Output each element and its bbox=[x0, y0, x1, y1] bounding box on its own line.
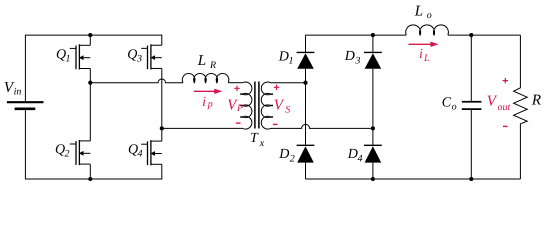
svg-text:o: o bbox=[427, 10, 432, 21]
svg-text:S: S bbox=[285, 104, 290, 115]
svg-text:i: i bbox=[202, 95, 206, 110]
svg-text:L: L bbox=[414, 3, 423, 19]
svg-text:R: R bbox=[209, 60, 216, 71]
svg-text:2: 2 bbox=[290, 154, 295, 165]
svg-text:p: p bbox=[207, 99, 213, 110]
svg-text:D: D bbox=[347, 147, 358, 162]
svg-text:R: R bbox=[531, 93, 541, 109]
svg-text:L: L bbox=[197, 53, 206, 69]
svg-text:3: 3 bbox=[354, 55, 360, 66]
svg-text:2: 2 bbox=[65, 148, 70, 159]
svg-text:o: o bbox=[452, 102, 457, 113]
svg-text:4: 4 bbox=[138, 148, 143, 159]
svg-text:C: C bbox=[442, 95, 452, 110]
svg-text:P: P bbox=[236, 103, 243, 114]
svg-text:4: 4 bbox=[358, 154, 363, 165]
svg-text:in: in bbox=[14, 87, 22, 98]
svg-text:T: T bbox=[250, 131, 259, 146]
svg-text:Q: Q bbox=[127, 48, 137, 63]
svg-text:1: 1 bbox=[66, 53, 71, 64]
svg-text:3: 3 bbox=[136, 54, 142, 65]
svg-text:out: out bbox=[498, 102, 511, 113]
svg-text:D: D bbox=[278, 147, 289, 162]
svg-text:D: D bbox=[278, 50, 289, 65]
svg-text:1: 1 bbox=[289, 56, 294, 67]
svg-text:D: D bbox=[344, 49, 355, 64]
svg-text:x: x bbox=[259, 138, 265, 149]
svg-text:L: L bbox=[423, 53, 430, 64]
svg-text:i: i bbox=[419, 47, 423, 62]
